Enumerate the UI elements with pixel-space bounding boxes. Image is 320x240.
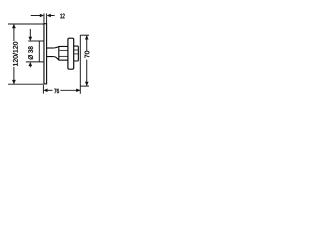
stem (valve hub) — [47, 48, 54, 57]
wall plate (escutcheon side view) — [44, 24, 47, 84]
dimension 76: dim line and arrows — [43, 89, 80, 93]
dimension Ø38: dim line tails and arrows — [29, 29, 33, 67]
dimension Ø38 (inner left): extension lines — [26, 41, 44, 62]
flare cone to handle bell — [54, 47, 59, 61]
dimension 12: dim line and arrows — [31, 14, 55, 18]
handle bell section — [59, 46, 68, 60]
dimension 76 (bottom): extension line left — [42, 85, 44, 94]
dimension 120/120: dim line and arrows — [12, 24, 16, 84]
dimension Ø38: value label — [27, 46, 33, 60]
concealed valve body behind wall — [38, 41, 40, 62]
dimension 12 (top): extension lines — [44, 13, 47, 23]
dimension 12: value label — [60, 14, 64, 19]
knob ring (side view) — [68, 38, 74, 69]
dimension 120/120: value label — [12, 41, 18, 67]
dimension 76: value label — [53, 88, 60, 94]
dimension 70: dim line and arrows — [85, 35, 89, 86]
dimension 70: value label — [84, 51, 90, 59]
dimension 120/120 (left): extension lines — [8, 24, 44, 84]
dimension 70 (right): extension geometry — [80, 35, 89, 94]
front cap of knob — [74, 46, 79, 61]
